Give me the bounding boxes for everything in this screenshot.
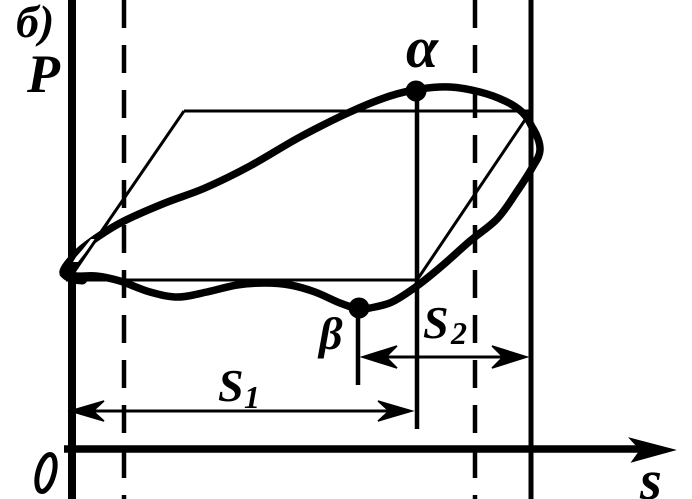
alpha vertical line	[415, 91, 420, 429]
parallelogram bottom side	[66, 279, 417, 282]
svg-text:α: α	[406, 15, 439, 80]
y-axis	[68, 0, 76, 499]
x-axis	[64, 445, 648, 453]
S2 dimension line	[364, 356, 525, 359]
svg-text:P: P	[26, 44, 61, 104]
svg-text:S: S	[423, 297, 449, 348]
svg-text:2: 2	[450, 315, 467, 351]
S2 left arrowhead	[362, 346, 397, 368]
svg-text:β: β	[317, 308, 343, 359]
dashed guide line left	[122, 0, 127, 499]
origin label 0	[33, 453, 58, 494]
parallelogram left side	[68, 111, 184, 280]
white sliver inside knot	[73, 239, 96, 262]
svg-text:б): б)	[16, 0, 54, 47]
svg-text:S: S	[218, 360, 244, 411]
svg-text:s: s	[639, 450, 662, 499]
dashed guide line right	[473, 0, 478, 499]
point beta dot	[349, 298, 370, 319]
parallelogram left side over knot	[72, 222, 108, 275]
x-axis arrowhead	[631, 439, 673, 461]
indicator loop curve	[63, 87, 540, 309]
S1 dimension line	[72, 410, 410, 413]
S1 right arrowhead	[378, 401, 412, 421]
solid guide line right	[529, 0, 534, 499]
knot blob at left of loop	[66, 256, 82, 279]
point alpha dot	[406, 81, 427, 102]
beta vertical line	[356, 308, 361, 385]
parallelogram top side	[184, 110, 531, 113]
svg-text:1: 1	[244, 379, 260, 415]
S1 left arrowhead	[70, 401, 104, 421]
parallelogram right side	[417, 111, 531, 280]
S2 right arrowhead	[492, 346, 527, 368]
